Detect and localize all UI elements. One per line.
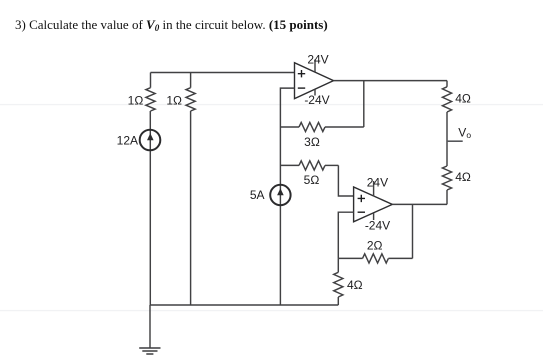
- svg-text:4Ω: 4Ω: [347, 278, 363, 292]
- faint scan line upper: [0, 104, 543, 106]
- wire U2 output: [392, 203, 447, 205]
- resistor 4ohm (top right): [442, 81, 451, 112]
- label 4ohm (bottom middle): [347, 278, 363, 292]
- svg-text:4Ω: 4Ω: [455, 91, 471, 105]
- U1 negative supply stub: [314, 89, 316, 95]
- wire 5ohm to U2 + input: [338, 165, 353, 196]
- label Vo: [458, 126, 471, 141]
- U2 negative supply stub: [373, 213, 375, 220]
- label 4ohm (bottom right): [455, 170, 471, 184]
- label 24V (U2): [367, 176, 388, 190]
- current source I2 5A: [270, 185, 290, 205]
- current source I1 12A: [140, 130, 161, 151]
- label 5A: [250, 188, 265, 202]
- label 1ohm (right resistor): [166, 94, 182, 108]
- resistor 3ohm: [280, 122, 363, 131]
- label 3ohm: [304, 135, 320, 149]
- label -24V (U1): [304, 93, 329, 107]
- ground: [139, 305, 160, 354]
- wire 2ohm node down to 4ohm: [337, 258, 339, 272]
- op-amp U2: [354, 187, 393, 222]
- label -24V (U2): [365, 218, 390, 232]
- wire U1 inverting input feedback (down to 5A node): [280, 88, 294, 185]
- svg-text:-24V: -24V: [304, 93, 329, 107]
- svg-text:5Ω: 5Ω: [304, 173, 320, 187]
- wire output junction down to 3ohm: [363, 81, 365, 127]
- node Vo tick: [447, 140, 463, 142]
- svg-text:24V: 24V: [367, 176, 388, 190]
- resistor 4ohm (bottom middle): [334, 272, 343, 305]
- svg-text:24V: 24V: [307, 52, 328, 66]
- svg-text:12A: 12A: [117, 134, 138, 148]
- wire top (U1 + input net): [151, 72, 295, 74]
- svg-text:-24V: -24V: [365, 218, 390, 232]
- wire R2 to bottom: [190, 111, 192, 305]
- bottom wire: [150, 304, 338, 306]
- faint scan line lower: [0, 310, 543, 312]
- label 12A: [117, 134, 138, 148]
- U1 positive supply stub: [314, 60, 316, 73]
- wire U1 output: [334, 80, 448, 82]
- resistor 2ohm: [338, 254, 412, 263]
- label 2ohm: [367, 238, 383, 252]
- resistor 5ohm: [280, 161, 338, 170]
- U2 positive supply stub: [373, 181, 375, 197]
- wire through I1 to bottom: [149, 111, 151, 305]
- wire between right 4ohm resistors: [446, 112, 448, 166]
- svg-text:5A: 5A: [250, 188, 265, 202]
- wire through I2 to bottom: [279, 185, 281, 305]
- wire U2 inverting input to 2ohm node: [338, 212, 353, 258]
- svg-text:4Ω: 4Ω: [455, 170, 471, 184]
- label 4ohm (top right): [455, 91, 471, 105]
- svg-text:1Ω: 1Ω: [128, 94, 144, 108]
- title text: [15, 17, 328, 33]
- svg-text:3Ω: 3Ω: [304, 135, 320, 149]
- resistor R1 1ohm: [146, 73, 155, 112]
- op-amp U1: [295, 63, 334, 99]
- label 1ohm (left resistor): [128, 94, 144, 108]
- svg-text:2Ω: 2Ω: [367, 238, 383, 252]
- svg-text:3) Calculate the value of V0 i: 3) Calculate the value of V0 in the circ…: [15, 17, 328, 33]
- svg-text:1Ω: 1Ω: [166, 94, 182, 108]
- resistor 4ohm (bottom right): [442, 166, 451, 204]
- wire 2ohm up to U2 output junction: [412, 204, 414, 258]
- resistor R2 1ohm: [186, 73, 195, 112]
- label 24V (U1): [307, 52, 328, 66]
- label 5ohm: [304, 173, 320, 187]
